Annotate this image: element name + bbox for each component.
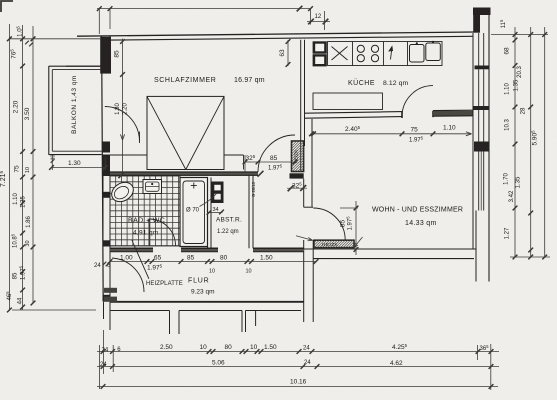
svg-text:FLUR: FLUR <box>188 278 209 285</box>
svg-text:85: 85 <box>270 155 278 162</box>
svg-text:8.12 qm: 8.12 qm <box>383 80 408 87</box>
svg-text:28: 28 <box>521 107 527 114</box>
svg-text:12: 12 <box>315 14 322 20</box>
svg-text:2.50: 2.50 <box>160 344 173 351</box>
svg-text:10.16: 10.16 <box>290 379 307 386</box>
svg-text:9.23 qm: 9.23 qm <box>191 289 215 296</box>
svg-text:HEIZPLATTE: HEIZPLATTE <box>146 281 183 287</box>
svg-text:16.97 qm: 16.97 qm <box>234 77 265 84</box>
svg-text:85: 85 <box>340 220 347 228</box>
svg-text:30: 30 <box>25 240 31 246</box>
svg-text:44: 44 <box>18 297 24 304</box>
svg-text:24: 24 <box>102 348 109 354</box>
svg-text:85: 85 <box>114 50 121 58</box>
svg-text:2.20: 2.20 <box>123 103 129 115</box>
svg-text:1.86: 1.86 <box>26 216 32 228</box>
svg-text:75: 75 <box>411 127 419 134</box>
svg-text:3.50: 3.50 <box>24 107 31 120</box>
svg-text:10.3: 10.3 <box>505 119 511 131</box>
svg-text:2.20: 2.20 <box>13 100 20 113</box>
svg-text:1.50: 1.50 <box>264 344 277 351</box>
svg-text:65: 65 <box>154 255 162 262</box>
svg-text:3.42: 3.42 <box>509 190 515 202</box>
svg-text:24: 24 <box>94 263 101 269</box>
svg-text:80: 80 <box>220 255 228 262</box>
svg-text:34: 34 <box>213 207 219 213</box>
svg-text:68: 68 <box>504 47 511 55</box>
svg-text:1.35: 1.35 <box>21 196 27 208</box>
svg-text:1.10: 1.10 <box>505 83 511 95</box>
svg-text:10: 10 <box>25 167 31 173</box>
svg-text:WOHN - UND ESSZIMMER: WOHN - UND ESSZIMMER <box>372 207 463 214</box>
svg-text:63: 63 <box>279 49 286 57</box>
svg-text:1.27: 1.27 <box>505 227 511 239</box>
svg-text:80: 80 <box>225 344 233 351</box>
svg-text:G 28/18: G 28/18 <box>251 181 256 197</box>
svg-text:10: 10 <box>209 269 215 275</box>
svg-text:BALKON 1,43 qm: BALKON 1,43 qm <box>71 75 78 134</box>
svg-text:10: 10 <box>250 344 258 351</box>
svg-text:4.62: 4.62 <box>390 360 403 367</box>
svg-text:1.30: 1.30 <box>68 160 81 167</box>
svg-text:1.22 qm: 1.22 qm <box>217 229 239 235</box>
svg-text:24: 24 <box>304 360 311 366</box>
svg-text:1.35: 1.35 <box>516 176 522 188</box>
svg-text:1.35: 1.35 <box>514 79 520 91</box>
svg-text:20.3: 20.3 <box>517 66 523 78</box>
svg-text:10: 10 <box>200 344 208 351</box>
svg-text:14.33 qm: 14.33 qm <box>405 220 437 227</box>
svg-text:HEIZK: HEIZK <box>322 242 339 248</box>
svg-text:Ø 70: Ø 70 <box>186 208 200 214</box>
svg-text:10: 10 <box>51 155 57 161</box>
svg-text:85: 85 <box>187 255 195 262</box>
svg-text:5.06: 5.06 <box>212 360 225 367</box>
svg-text:SCHLAFZIMMER: SCHLAFZIMMER <box>154 77 216 84</box>
svg-text:85: 85 <box>13 272 19 279</box>
svg-text:10: 10 <box>246 269 252 275</box>
svg-text:1.50: 1.50 <box>260 255 273 262</box>
svg-text:24: 24 <box>303 346 310 352</box>
svg-text:BAD + WC: BAD + WC <box>128 218 165 225</box>
svg-text:75: 75 <box>14 165 21 173</box>
svg-text:1.70: 1.70 <box>504 173 510 185</box>
svg-text:1.10: 1.10 <box>443 125 456 132</box>
svg-text:KÜCHE: KÜCHE <box>348 79 375 87</box>
svg-text:4,91 qm: 4,91 qm <box>133 230 159 237</box>
svg-text:1.00: 1.00 <box>120 255 133 262</box>
svg-text:1.10: 1.10 <box>13 193 19 205</box>
svg-text:ABST.R.: ABST.R. <box>216 217 242 224</box>
svg-text:1.80: 1.80 <box>115 103 121 115</box>
